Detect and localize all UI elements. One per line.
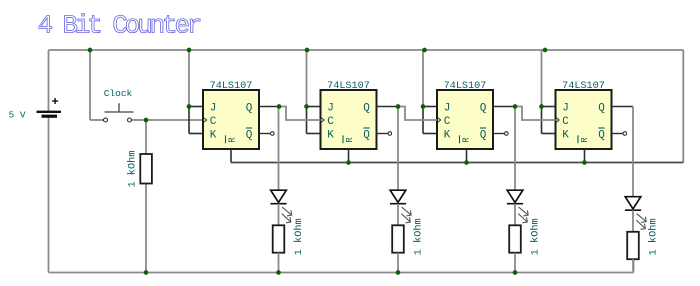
svg-text:Q: Q [246,103,253,115]
svg-text:R: R [580,137,590,143]
svg-text:R: R [345,137,355,143]
svg-text:Q: Q [598,130,605,142]
svg-text:Q: Q [480,103,487,115]
svg-text:Q: Q [480,130,487,142]
svg-text:74LS107: 74LS107 [210,81,253,92]
svg-text:74LS107: 74LS107 [444,81,487,92]
svg-text:C: C [327,116,334,128]
svg-text:C: C [444,116,451,128]
svg-text:74LS107: 74LS107 [327,81,370,92]
svg-text:74LS107: 74LS107 [562,81,605,92]
svg-text:Q: Q [363,130,370,142]
svg-text:1 kOhm: 1 kOhm [293,218,305,255]
svg-text:K: K [562,130,569,142]
svg-text:R: R [228,137,238,143]
svg-text:J: J [327,103,334,115]
svg-text:1 kOhm: 1 kOhm [127,150,139,187]
svg-text:K: K [210,130,217,142]
svg-text:J: J [562,103,569,115]
svg-text:R: R [462,137,472,143]
svg-text:5 V: 5 V [8,110,25,121]
svg-text:K: K [327,130,334,142]
svg-text:C: C [210,116,217,128]
svg-text:4 Bit Counter: 4 Bit Counter [38,10,201,40]
svg-text:J: J [210,103,217,115]
svg-text:1 kOhm: 1 kOhm [648,218,660,255]
svg-text:Q: Q [246,130,253,142]
svg-text:C: C [562,116,569,128]
svg-text:K: K [444,130,451,142]
svg-text:J: J [444,103,451,115]
svg-text:Q: Q [598,103,605,115]
svg-text:Q: Q [363,103,370,115]
svg-text:1 kOhm: 1 kOhm [413,218,425,255]
svg-text:Clock: Clock [104,88,133,99]
svg-text:1 kOhm: 1 kOhm [530,218,542,255]
